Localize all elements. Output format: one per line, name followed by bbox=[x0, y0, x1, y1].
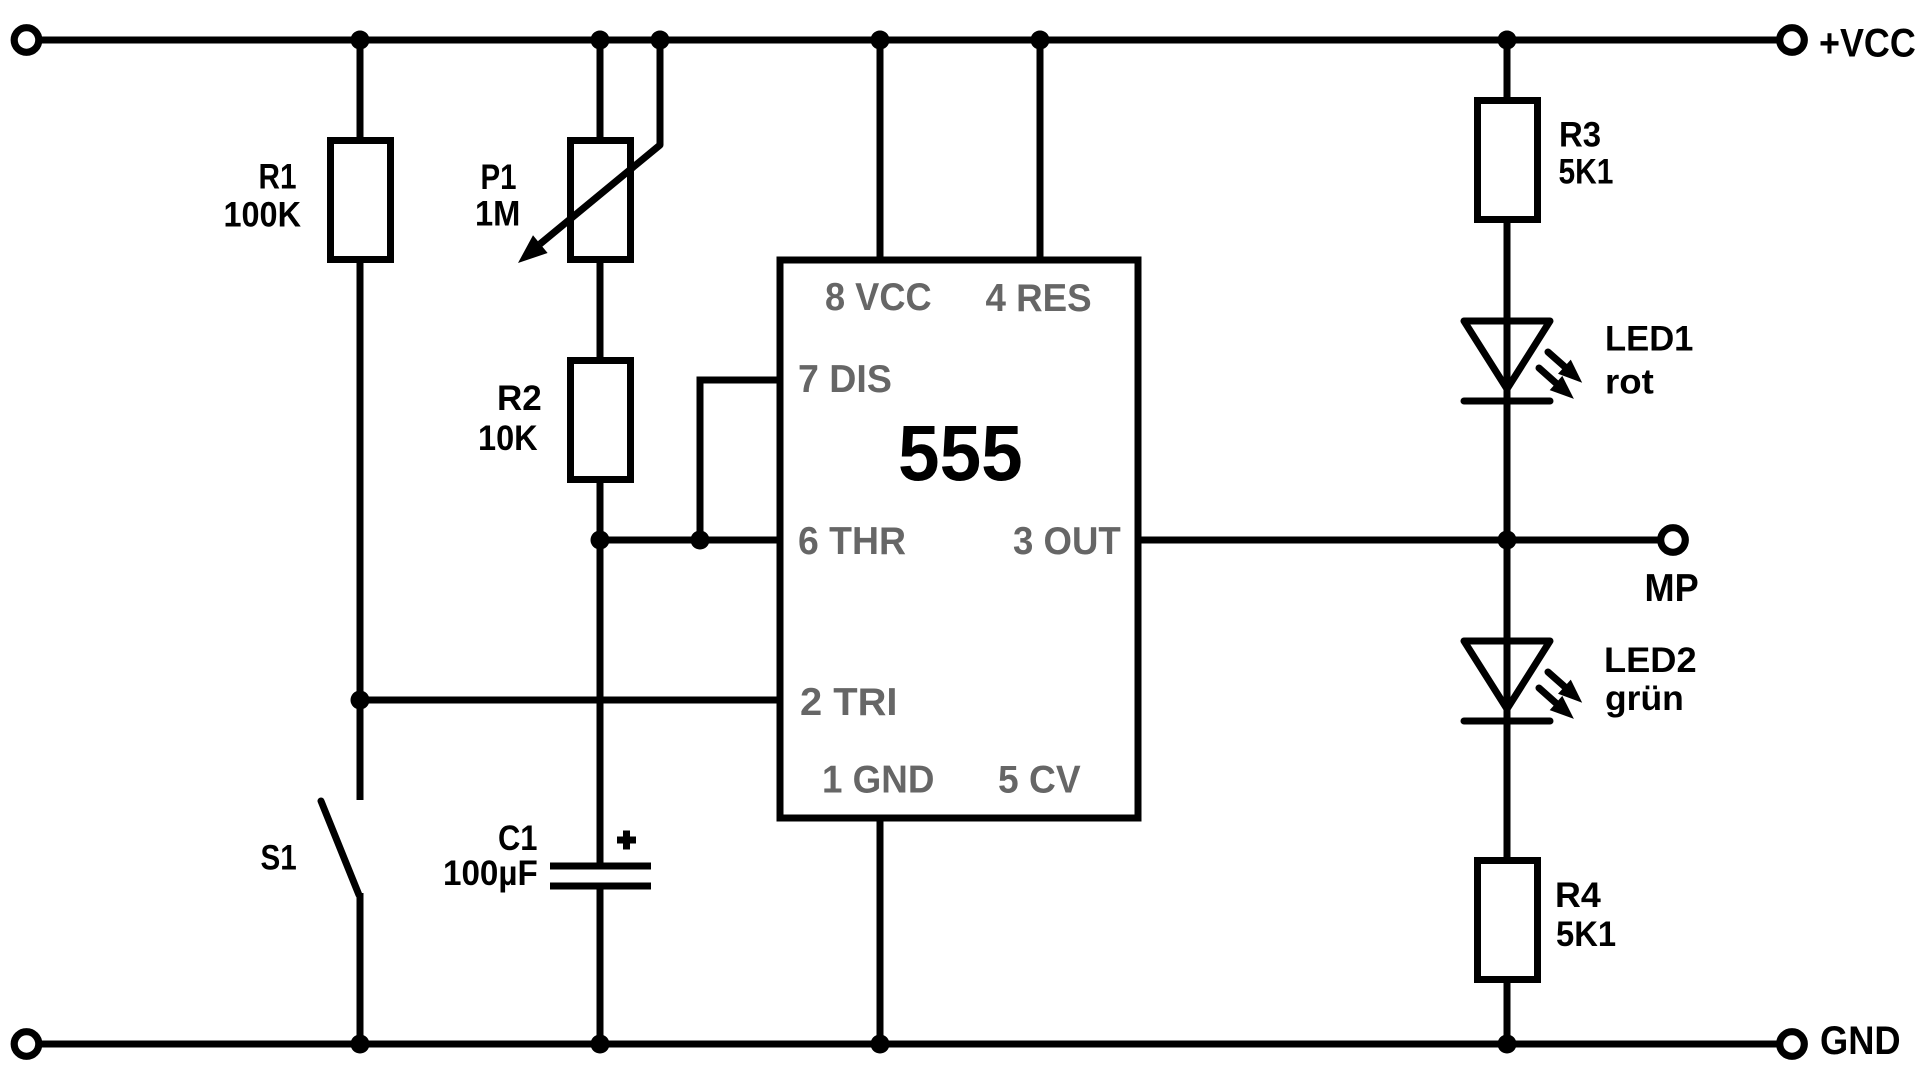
svg-text:grün: grün bbox=[1605, 679, 1684, 718]
svg-text:rot: rot bbox=[1605, 363, 1654, 402]
svg-text:MP: MP bbox=[1645, 567, 1699, 610]
svg-text:GND: GND bbox=[1820, 1019, 1901, 1063]
svg-text:3 OUT: 3 OUT bbox=[1013, 520, 1121, 563]
svg-text:C1: C1 bbox=[498, 819, 538, 858]
svg-text:+VCC: +VCC bbox=[1819, 22, 1916, 66]
svg-text:5 CV: 5 CV bbox=[998, 759, 1081, 802]
svg-text:1M: 1M bbox=[475, 195, 520, 234]
svg-text:P1: P1 bbox=[481, 158, 517, 197]
svg-text:6 THR: 6 THR bbox=[798, 520, 906, 563]
svg-text:10K: 10K bbox=[478, 419, 538, 458]
svg-text:4 RES: 4 RES bbox=[986, 277, 1092, 320]
svg-text:LED1: LED1 bbox=[1605, 320, 1693, 359]
svg-text:S1: S1 bbox=[261, 839, 297, 878]
svg-text:100K: 100K bbox=[224, 196, 302, 235]
svg-text:8 VCC: 8 VCC bbox=[825, 276, 932, 319]
svg-text:R1: R1 bbox=[259, 158, 297, 197]
svg-text:R3: R3 bbox=[1559, 116, 1601, 155]
svg-text:100µF: 100µF bbox=[443, 854, 538, 893]
svg-text:5K1: 5K1 bbox=[1559, 153, 1614, 192]
svg-text:7 DIS: 7 DIS bbox=[798, 358, 892, 401]
svg-text:1 GND: 1 GND bbox=[822, 759, 934, 802]
svg-text:555: 555 bbox=[898, 408, 1023, 497]
svg-text:5K1: 5K1 bbox=[1556, 915, 1616, 954]
svg-text:R4: R4 bbox=[1555, 876, 1601, 915]
svg-text:LED2: LED2 bbox=[1604, 641, 1697, 680]
svg-text:2 TRI: 2 TRI bbox=[800, 681, 898, 724]
svg-text:R2: R2 bbox=[497, 379, 542, 418]
